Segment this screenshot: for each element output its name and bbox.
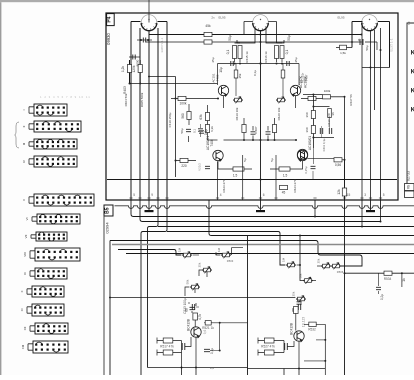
- wire: [253, 126, 268, 140]
- wire: [181, 353, 183, 368]
- junction: [147, 39, 149, 41]
- svg-text:9,6: 9,6: [203, 330, 207, 335]
- resistor R411: [204, 32, 212, 36]
- wire: [284, 369, 299, 376]
- wire: [260, 31, 262, 200]
- svg-text:15: 15: [347, 193, 351, 197]
- wire: [176, 104, 197, 161]
- wire: [378, 273, 380, 294]
- wire: [107, 179, 397, 181]
- junction: [324, 360, 326, 362]
- junction: [299, 235, 301, 237]
- svg-text:25k: 25k: [238, 73, 242, 78]
- junction: [324, 339, 326, 341]
- svg-text:0,1µ: 0,1µ: [253, 70, 257, 76]
- junction: [239, 63, 241, 65]
- wire: [316, 339, 325, 341]
- wire: [282, 64, 284, 97]
- trimmer P502: [221, 252, 231, 259]
- resistor R417: [205, 113, 209, 121]
- wire: [200, 124, 202, 137]
- svg-text:36: 36: [331, 112, 335, 116]
- svg-text:R420 10k: R420 10k: [277, 107, 281, 120]
- junction: [281, 63, 283, 65]
- junction: [298, 368, 300, 370]
- wire: [242, 155, 244, 200]
- resistor R425: [187, 112, 191, 120]
- resistor R430: [340, 45, 347, 50]
- wire: [361, 206, 363, 227]
- resistor R524: [264, 350, 274, 355]
- svg-text:0,1µ: 0,1µ: [210, 348, 214, 354]
- pin ticks on frame bottom: [129, 197, 132, 199]
- trimmer P401: [233, 97, 243, 104]
- wire: [224, 139, 297, 141]
- trimmer P509: [296, 296, 306, 303]
- resistor R434: [342, 188, 346, 196]
- svg-text:R424 270: R424 270: [293, 179, 297, 192]
- junction: [219, 350, 221, 352]
- svg-text:AC180/01: AC180/01: [308, 136, 312, 150]
- capacitor C502: [182, 343, 185, 350]
- resistor R418: [205, 125, 209, 133]
- wire: [130, 60, 141, 84]
- transistor T407 AC151r: [290, 85, 300, 96]
- svg-text:C411 0,1µ: C411 0,1µ: [322, 138, 326, 151]
- wire: [110, 297, 295, 299]
- capacitor C414: [205, 166, 210, 168]
- junction: [129, 83, 131, 85]
- resistor R426: [180, 158, 188, 162]
- wire: [140, 206, 381, 222]
- svg-text:R506: R506: [337, 270, 344, 274]
- svg-text:R521 1k: R521 1k: [202, 326, 214, 330]
- svg-text:R419 10k: R419 10k: [235, 107, 239, 120]
- transistor T408 AC180: [213, 150, 223, 161]
- wire: [189, 302, 199, 307]
- svg-text:XII: XII: [23, 327, 27, 331]
- junction: [361, 34, 363, 36]
- wire: [204, 323, 248, 351]
- junction: [234, 63, 236, 65]
- wire: [365, 42, 377, 50]
- transistor T410: [297, 149, 307, 160]
- wire: [301, 98, 330, 100]
- wire: [247, 236, 249, 376]
- resistor R420: [272, 125, 276, 133]
- trimmer P508: [303, 277, 313, 284]
- svg-text:1 2 3 4 5 6 7 8 9 10 11: 1 2 3 4 5 6 7 8 9 10 11: [40, 95, 91, 99]
- wire: [313, 280, 316, 282]
- wire: [148, 0, 150, 23]
- junction: [312, 94, 314, 96]
- wire: [139, 28, 141, 200]
- wire: [216, 254, 220, 256]
- wire: [129, 56, 140, 58]
- wire: [237, 22, 284, 44]
- wire: [313, 137, 334, 139]
- junction: [380, 221, 382, 223]
- junction: [312, 106, 314, 108]
- svg-text:11L123: 11L123: [302, 317, 306, 328]
- svg-text:360: 360: [305, 127, 309, 132]
- svg-text:B5: B5: [105, 207, 111, 214]
- resistor R412: [204, 40, 212, 44]
- wire: [148, 367, 248, 369]
- svg-text:P4: P4: [107, 16, 113, 22]
- wire: [324, 324, 326, 375]
- page left border: [0, 2, 1, 375]
- svg-text:EL95 1-1: EL95 1-1: [390, 38, 394, 51]
- wire: [380, 206, 382, 222]
- svg-text:R423 270: R423 270: [222, 179, 226, 192]
- svg-text:R532: R532: [308, 328, 316, 332]
- svg-text:63k: 63k: [199, 114, 203, 120]
- svg-text:25k: 25k: [198, 262, 202, 267]
- wire: [275, 155, 277, 200]
- svg-text:R416 1k: R416 1k: [264, 51, 268, 63]
- svg-text:25µ: 25µ: [211, 57, 215, 62]
- junction: [217, 98, 219, 100]
- svg-text:9: 9: [151, 193, 153, 197]
- connector VIII: [30, 248, 80, 261]
- svg-text:560: 560: [181, 113, 185, 119]
- svg-text:50µ: 50µ: [228, 35, 232, 41]
- wire: [148, 31, 150, 200]
- svg-text:1M: 1M: [282, 257, 286, 262]
- capacitor C411: [320, 128, 322, 134]
- svg-text:5µ: 5µ: [270, 158, 274, 162]
- junction: [344, 272, 346, 274]
- svg-text:C410 250µ: C410 250µ: [168, 112, 172, 127]
- svg-text:III: III: [22, 143, 26, 146]
- wire: [270, 161, 303, 169]
- resistor R522: [294, 307, 299, 314]
- wire: [284, 341, 294, 353]
- svg-text:100k: 100k: [324, 89, 331, 93]
- junction: [344, 159, 346, 161]
- svg-text:25µ: 25µ: [294, 57, 298, 62]
- wire: [352, 22, 390, 68]
- svg-text:V: V: [22, 199, 26, 201]
- tube V3 socket: [361, 15, 378, 31]
- resistor R531: [309, 322, 316, 326]
- resistor R414: [238, 46, 242, 59]
- svg-text:0,2µ: 0,2µ: [380, 294, 384, 300]
- wire: [199, 270, 207, 277]
- svg-text:1k: 1k: [402, 278, 406, 282]
- svg-text:5: 5: [133, 193, 135, 197]
- wire: [300, 236, 303, 281]
- wire: [103, 216, 105, 376]
- svg-text:0,1µ: 0,1µ: [204, 129, 208, 135]
- svg-text:0,1: 0,1: [285, 50, 289, 55]
- svg-text:BC413B: BC413B: [187, 319, 191, 331]
- connector VI: [32, 214, 80, 224]
- capacitor C520: [204, 349, 210, 351]
- wire: [232, 248, 243, 255]
- svg-text:6,3k: 6,3k: [210, 126, 214, 132]
- svg-text:EL95: EL95: [337, 16, 344, 20]
- connector II: [29, 121, 81, 132]
- svg-text:25k: 25k: [317, 258, 321, 263]
- junction: [312, 137, 314, 139]
- wire: [171, 98, 218, 100]
- svg-text:VIII: VIII: [23, 252, 27, 257]
- adjacent page frame: [407, 23, 414, 187]
- wire: [224, 96, 296, 108]
- resistor R530: [384, 271, 392, 275]
- svg-text:02733: 02733: [407, 171, 411, 181]
- svg-text:R437 56: R437 56: [349, 94, 353, 106]
- wire: [185, 287, 195, 296]
- wire: [308, 159, 345, 160]
- wire: [158, 226, 414, 228]
- transistor T502 BC413: [294, 331, 304, 342]
- junction: [344, 96, 346, 98]
- capacitor C413: [311, 166, 316, 168]
- svg-text:50k: 50k: [186, 279, 190, 284]
- junction: [139, 83, 141, 85]
- wire: [317, 265, 321, 267]
- wire: [314, 206, 316, 217]
- svg-text:IV: IV: [22, 160, 26, 163]
- wire: [137, 39, 152, 41]
- junction: [109, 297, 111, 299]
- ground g3: [370, 207, 372, 211]
- wire: [193, 254, 199, 256]
- junction: [175, 160, 177, 162]
- junction: [267, 139, 269, 141]
- capacitor C401: [143, 38, 145, 43]
- wire: [141, 206, 167, 375]
- wire: [331, 96, 345, 98]
- wire: [175, 77, 177, 178]
- svg-text:R503: R503: [227, 259, 234, 263]
- capacitor C530: [376, 287, 381, 289]
- junction: [351, 41, 353, 43]
- svg-text:0,56: 0,56: [335, 163, 341, 167]
- trimmer P504: [190, 284, 200, 291]
- svg-text:T408: T408: [210, 139, 214, 146]
- wire: [126, 253, 414, 255]
- resistor R416: [280, 46, 284, 59]
- connector IX: [30, 268, 67, 279]
- capacitor C409: [186, 129, 191, 131]
- svg-text:XI: XI: [20, 308, 24, 311]
- resistor R407: [234, 70, 238, 78]
- svg-text:09930: 09930: [106, 33, 111, 45]
- wire: [344, 97, 346, 200]
- capacitor C501: [190, 307, 195, 309]
- resistor R513: [193, 313, 198, 320]
- wire: [244, 118, 275, 125]
- svg-text:50k: 50k: [299, 273, 303, 278]
- junction: [370, 67, 372, 69]
- connector XIII: [28, 341, 68, 353]
- resistor R419: [242, 125, 246, 133]
- wire: [109, 241, 111, 376]
- svg-text:50µ: 50µ: [287, 35, 291, 41]
- page top border: [0, 0, 414, 2]
- resistor R415: [275, 46, 279, 59]
- resistor R432: [311, 126, 315, 134]
- svg-text:R430 220: R430 220: [327, 113, 331, 126]
- junction: [260, 139, 262, 141]
- svg-text:2x: 2x: [211, 16, 215, 20]
- svg-text:Vb: Vb: [407, 185, 411, 189]
- wire: [300, 301, 302, 305]
- junction: [314, 216, 316, 218]
- wire: [277, 43, 283, 62]
- junction: [361, 226, 363, 228]
- transistor T409 AC180r: [297, 150, 307, 161]
- svg-text:25k: 25k: [292, 291, 296, 296]
- junction: [243, 139, 245, 141]
- label box Vb 02733: [405, 184, 414, 191]
- resistor R409: [178, 96, 186, 100]
- trimmer P507: [331, 263, 341, 270]
- svg-text:V21/2: V21/2: [198, 163, 202, 171]
- wire: [148, 206, 159, 368]
- svg-text:VII: VII: [24, 235, 28, 239]
- resistor R427: [280, 185, 288, 189]
- wire: [110, 241, 362, 267]
- junction: [140, 39, 142, 41]
- wire: [248, 368, 326, 370]
- junction: [274, 139, 276, 141]
- wires through board edge notches: [131, 200, 381, 208]
- wire: [344, 206, 346, 375]
- junction: [175, 98, 177, 100]
- svg-text:02994: 02994: [104, 222, 109, 234]
- svg-text:10µ: 10µ: [219, 67, 223, 73]
- connector XII: [30, 323, 68, 334]
- trimmer P505: [286, 262, 296, 269]
- trimmer P503: [202, 267, 212, 274]
- wire: [182, 368, 197, 376]
- wire: [149, 76, 176, 78]
- junction: [260, 41, 262, 43]
- capacitor C412: [360, 39, 363, 45]
- wire: [207, 105, 209, 140]
- wire: [157, 338, 182, 356]
- svg-text:AC188K: AC188K: [304, 75, 308, 88]
- wire: [235, 64, 237, 97]
- wire: [209, 206, 414, 236]
- junction: [260, 63, 262, 65]
- ground g1: [148, 207, 150, 211]
- resistor R413: [233, 46, 237, 59]
- capacitor C405: [231, 61, 233, 66]
- svg-text:9,6: 9,6: [210, 366, 215, 370]
- junction: [148, 76, 150, 78]
- wire: [130, 83, 218, 85]
- trimmer P501: [182, 252, 192, 259]
- resistor R422: [279, 167, 290, 171]
- connector VII: [31, 232, 67, 241]
- wire: [167, 232, 285, 266]
- capacitor C402: [133, 55, 135, 60]
- resistor R523: [264, 338, 274, 343]
- trimmer P402: [276, 97, 286, 104]
- resistor R408: [281, 70, 285, 78]
- svg-text:1,2k: 1,2k: [121, 66, 125, 72]
- trimmer P506: [321, 263, 331, 270]
- transistor T501 BC413: [191, 327, 201, 338]
- wire: [303, 94, 323, 96]
- svg-text:VI: VI: [25, 217, 29, 220]
- wire: [208, 139, 218, 141]
- svg-text:0,1: 0,1: [226, 50, 230, 55]
- capacitor C503: [297, 302, 302, 304]
- connector X: [27, 286, 64, 297]
- junction: [260, 34, 262, 36]
- junction: [215, 253, 217, 255]
- resistor R514: [163, 338, 173, 343]
- svg-text:360: 360: [305, 112, 309, 117]
- wire: [146, 41, 362, 43]
- junction: [299, 264, 301, 266]
- wire: [131, 206, 414, 217]
- wire: [118, 250, 181, 256]
- wire: [362, 22, 381, 201]
- svg-text:220: 220: [181, 164, 187, 168]
- svg-text:R403: R403: [123, 86, 127, 94]
- resistor R429: [334, 158, 342, 162]
- wire: [401, 273, 403, 287]
- resistor R431: [323, 95, 331, 99]
- svg-text:1,5: 1,5: [283, 174, 288, 178]
- junction: [219, 322, 221, 324]
- resistor R401: [127, 65, 131, 73]
- wire: [218, 161, 252, 169]
- junction: [295, 139, 297, 141]
- svg-text:0,25µ: 0,25µ: [304, 166, 308, 173]
- svg-text:5µ: 5µ: [243, 158, 247, 162]
- svg-text:3: 3: [364, 193, 366, 197]
- wire: [296, 299, 299, 369]
- capacitor C410: [199, 131, 204, 133]
- wire: [258, 338, 284, 356]
- wire: [131, 21, 167, 23]
- svg-text:4,7k: 4,7k: [198, 314, 202, 320]
- connector III: [29, 139, 77, 149]
- junction: [380, 49, 382, 51]
- capacitor C412b: [329, 128, 331, 134]
- svg-text:1,5k: 1,5k: [340, 51, 346, 55]
- wire: [112, 244, 414, 246]
- wire: [362, 67, 390, 69]
- svg-text:50µ: 50µ: [365, 45, 369, 50]
- capacitor C408: [266, 132, 271, 134]
- svg-text:II: II: [22, 126, 26, 128]
- tube V2 socket: [252, 15, 269, 31]
- capacitor C406: [287, 61, 289, 66]
- svg-text:6: 6: [263, 193, 265, 197]
- resistor R410: [308, 96, 316, 100]
- svg-text:1,5: 1,5: [233, 174, 238, 178]
- junction: [260, 63, 262, 65]
- wire: [130, 22, 132, 201]
- svg-text:X: X: [20, 290, 24, 292]
- svg-text:125k: 125k: [132, 65, 136, 72]
- wire: [218, 64, 300, 86]
- svg-text:C513 100µ: C513 100µ: [183, 298, 187, 314]
- connector XI: [27, 304, 64, 316]
- wire: [304, 323, 325, 325]
- svg-text:R534: R534: [384, 277, 392, 281]
